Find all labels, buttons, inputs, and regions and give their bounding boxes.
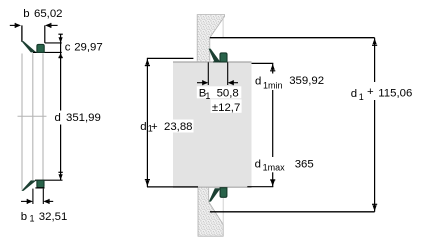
counterface line (top) bbox=[210, 37, 375, 39]
dimension c / d shared line bbox=[58, 34, 62, 180]
svg-text:65,02: 65,02 bbox=[34, 8, 63, 20]
svg-text:365: 365 bbox=[295, 159, 314, 171]
svg-text:359,92: 359,92 bbox=[289, 75, 324, 87]
dimension d1min / d1max bbox=[247, 63, 275, 186]
dimension B1 bbox=[197, 62, 238, 85]
middle figure: bottom seal (green) bbox=[209, 188, 227, 202]
middle figure: housing block (grey) bbox=[173, 62, 252, 188]
svg-text:+: + bbox=[367, 86, 374, 98]
break line across ring side view bbox=[18, 115, 47, 117]
dimension d1+23,88 label bbox=[140, 120, 193, 134]
svg-text:c: c bbox=[65, 41, 71, 53]
dimension d1+115,06 bbox=[372, 38, 377, 212]
left figure: bottom cut extension line bbox=[35, 179, 63, 181]
left figure: seal ring side-view surface lines bbox=[22, 53, 43, 189]
seal body (top cut, green) bbox=[37, 44, 44, 52]
left figure: bottom cut seal outline bbox=[21, 180, 44, 191]
svg-text:d: d bbox=[255, 159, 261, 171]
middle figure: top seal (green) bbox=[209, 49, 228, 62]
svg-text:d: d bbox=[140, 121, 146, 133]
svg-text:b: b bbox=[23, 8, 29, 20]
middle figure: bottom support ring (stippled) bbox=[198, 187, 223, 236]
dimension B1 label bbox=[197, 86, 242, 98]
svg-text:b: b bbox=[21, 211, 27, 223]
svg-text:1max: 1max bbox=[263, 163, 286, 173]
svg-text:±12,7: ±12,7 bbox=[212, 102, 240, 114]
svg-text:1min: 1min bbox=[263, 80, 283, 90]
svg-text:+: + bbox=[151, 121, 158, 133]
left figure: top cut seal outline bbox=[21, 25, 61, 52]
svg-text:50,8: 50,8 bbox=[217, 88, 239, 100]
svg-text:1: 1 bbox=[30, 213, 35, 223]
dimension d1+23,88 bbox=[145, 58, 198, 187]
svg-text:1: 1 bbox=[359, 92, 364, 102]
svg-text:1: 1 bbox=[205, 91, 210, 101]
svg-text:d: d bbox=[55, 112, 61, 124]
svg-text:d: d bbox=[351, 88, 357, 100]
counterface line (bottom) bbox=[210, 211, 375, 213]
svg-text:23,88: 23,88 bbox=[164, 121, 193, 133]
dimension b1 bbox=[21, 189, 53, 204]
seal body (bottom cut, green) bbox=[37, 180, 44, 187]
dimension b bbox=[10, 23, 58, 28]
svg-text:29,97: 29,97 bbox=[74, 41, 103, 53]
seal lip (top cut) bbox=[21, 41, 36, 52]
svg-text:351,99: 351,99 bbox=[66, 112, 101, 124]
middle figure: top support ring (stippled) bbox=[197, 15, 224, 62]
c top extension line bbox=[45, 42, 62, 44]
svg-text:32,51: 32,51 bbox=[39, 211, 68, 223]
seal lip (bottom cut) bbox=[21, 180, 36, 191]
svg-text:d: d bbox=[255, 76, 261, 88]
svg-text:115,06: 115,06 bbox=[378, 87, 412, 99]
